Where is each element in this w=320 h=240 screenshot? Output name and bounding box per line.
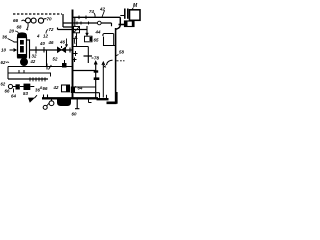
wire bottom row link [13, 86, 35, 88]
muffler box [62, 85, 70, 92]
node cross x47 line1 [46, 64, 48, 70]
node ticks above band [44, 95, 48, 99]
svg-text:62: 62 [1, 60, 6, 65]
node mark x104 [104, 66, 107, 68]
compressor body dark [57, 100, 71, 107]
small valve circle on y23 line [98, 21, 102, 25]
wire leader from circle1 down [27, 24, 30, 29]
node tick x70 [69, 48, 71, 53]
wire leader 20 [15, 31, 19, 33]
gauge circle 3 [38, 18, 43, 23]
svg-text:70: 70 [47, 17, 53, 22]
wire squiggle to gauge [22, 20, 26, 21]
valve knot y71 on evap line [94, 70, 99, 72]
svg-text:58: 58 [119, 50, 124, 55]
wire vessel to separator [21, 59, 23, 61]
capacitor bar 2 [127, 9, 129, 19]
node marks near x76 y38 [73, 36, 78, 44]
capacitor bar 1 [124, 9, 126, 19]
node tick x106 band [106, 95, 108, 99]
starter dark tick right [132, 22, 134, 27]
node tick bottom left [13, 89, 15, 93]
node cross tick x36 [35, 47, 37, 54]
wire leader 36 [8, 39, 15, 42]
gauge hanging circle [51, 100, 53, 102]
wire leader 58 [116, 55, 119, 57]
accumulator inner element upper [20, 40, 24, 45]
component block a [16, 84, 20, 89]
svg-text:62: 62 [1, 82, 6, 87]
node cross x74 y53 [73, 51, 78, 56]
component block b [24, 84, 31, 90]
svg-text:68: 68 [17, 25, 22, 30]
evaporator fin ticks line3 [30, 77, 45, 81]
check valve box x74 [74, 27, 80, 33]
wire muffler stub [64, 60, 66, 63]
wire squiggle to label 70 [44, 18, 47, 21]
wire leader 42 [102, 11, 105, 18]
wire loop left vertical [72, 10, 74, 99]
node scribble left low [73, 58, 77, 63]
wire pipe y46.5 [73, 47, 89, 57]
valve bowtie [57, 47, 66, 53]
wire leader M [132, 8, 134, 11]
wire below check valve [76, 33, 78, 47]
svg-text:46: 46 [48, 40, 54, 45]
svg-text:64: 64 [78, 86, 83, 91]
wire corner to motor [120, 15, 124, 17]
wire main liquid line y50 [30, 49, 73, 51]
svg-text:44: 44 [95, 30, 101, 35]
expansion tee component [84, 56, 93, 63]
wire leader 74 [94, 13, 95, 17]
svg-text:66: 66 [43, 86, 48, 91]
valve stub x66 [65, 39, 67, 47]
wire compressor leg [75, 100, 79, 109]
valve stem [61, 46, 63, 48]
accumulator body [18, 38, 27, 58]
wire step vertical x63 [63, 14, 73, 27]
accumulator inner element lower [20, 46, 24, 53]
node bump x79 [78, 16, 80, 20]
wire tick left of vessel [14, 41, 18, 43]
node diagonal x50 line1 [49, 65, 52, 70]
wire coil line 2 [8, 72, 51, 74]
node ticks line2 [19, 70, 51, 77]
wire small circle stub [47, 103, 50, 106]
svg-text:72: 72 [49, 27, 54, 32]
solenoid dark tick [90, 37, 92, 41]
svg-text:52: 52 [53, 57, 58, 62]
svg-text:46: 46 [59, 40, 65, 45]
wire dashed control line top [13, 13, 62, 15]
svg-text:12: 12 [43, 34, 48, 39]
check valve diagonal [74, 27, 80, 33]
valve knot y78.5 on evap line [94, 77, 100, 80]
node tee x44 with drop [44, 47, 47, 67]
wire discharge thick band [42, 97, 109, 100]
node dashes right of loop [117, 60, 125, 62]
valve arrow down x87 [86, 26, 88, 36]
small circle bottom left of compressor [43, 105, 47, 109]
wire second pipe y23 [63, 23, 112, 26]
wire vessel right pipe [27, 40, 30, 59]
wire drain stub [35, 95, 38, 98]
wire leader 62 [6, 61, 9, 64]
knot on loop left vertical [71, 87, 75, 94]
wire third pipe y29.5 [58, 28, 88, 30]
svg-text:40: 40 [39, 41, 45, 46]
wire pipe y70.5 [73, 70, 96, 72]
svg-text:10: 10 [1, 48, 7, 53]
svg-text:66: 66 [13, 18, 19, 23]
node bump x86 [85, 16, 87, 20]
wire evap feed vertical with arrow [94, 62, 97, 99]
node mark below band [89, 100, 92, 103]
wire leader 72 [46, 30, 48, 34]
wire loop right vertical [115, 28, 117, 104]
node tick on y23 [77, 22, 89, 25]
wire loop bottom right corner thick [107, 92, 117, 104]
svg-text:36: 36 [2, 35, 8, 40]
wire rung y87 [73, 86, 96, 88]
starter dark tick [125, 22, 128, 27]
wire corner stub low [119, 24, 125, 26]
gauge circle 2 [31, 18, 36, 23]
wire loop top edge [73, 16, 121, 18]
oil separator blob [20, 58, 28, 66]
solenoid valve 65 box [85, 36, 93, 42]
svg-text:42: 42 [30, 59, 36, 64]
wire dash before 78 [92, 57, 94, 59]
svg-text:53: 53 [23, 91, 28, 96]
svg-text:64: 64 [11, 94, 16, 99]
drain arrow triangle [28, 98, 35, 103]
svg-text:66: 66 [5, 89, 10, 94]
wire inlet arrow 10 [10, 49, 17, 52]
wire coil line 3 [8, 78, 48, 80]
gauge circle 1 [26, 18, 31, 23]
svg-text:65: 65 [94, 38, 99, 43]
svg-text:32: 32 [32, 54, 37, 59]
starter box below [125, 21, 135, 27]
muffler dark half [66, 85, 70, 92]
wire second evap vertical [102, 62, 105, 98]
wire coil line 1 [8, 66, 73, 68]
wire branch pipe x74 [74, 17, 76, 26]
accumulator cap (dome) [18, 33, 27, 38]
svg-text:60: 60 [72, 112, 77, 117]
svg-text:20: 20 [8, 29, 15, 34]
svg-text:78: 78 [94, 56, 99, 61]
pump circle bottom row [8, 84, 12, 88]
wire arrow hook x108 [107, 60, 113, 65]
damper box on line1 [62, 63, 67, 68]
svg-text:4: 4 [36, 34, 40, 39]
accumulator base dark band [17, 54, 27, 59]
wire left connector vertical [7, 67, 9, 80]
wire loop right corner down [116, 17, 121, 29]
svg-text:42: 42 [53, 85, 59, 90]
svg-text:74: 74 [89, 9, 94, 14]
wire suction thin line [75, 87, 100, 98]
heat exchanger hook top right [103, 34, 116, 46]
motor box M [130, 10, 141, 20]
